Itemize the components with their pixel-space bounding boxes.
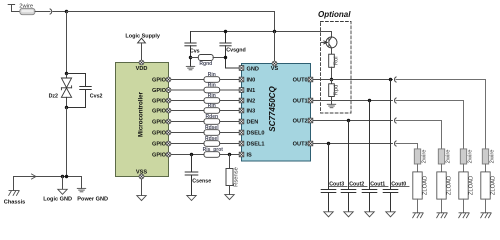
arrow on ground wire: [32, 174, 36, 179]
label 2wire (OUT3): [422, 149, 428, 163]
label Cvsgnd: [226, 48, 245, 54]
wire logic gnd stem: [62, 177, 64, 190]
connector arc OUT3: [394, 141, 396, 146]
svg-text:Microcontroller: Microcontroller: [138, 91, 145, 137]
pin GPIO row7: [152, 141, 171, 147]
TVS diode Dz2: [61, 74, 71, 108]
load ZLOAD (OUT1): [459, 172, 468, 199]
svg-text:ZLOAD: ZLOAD: [491, 176, 497, 195]
resistor 2wire (load OUT0): [482, 149, 488, 164]
junction (Csense tap): [190, 153, 193, 156]
pin OUT3: [293, 141, 313, 147]
wire VS stem: [274, 32, 276, 61]
resistor Rol: [329, 48, 335, 80]
junction (Cout3 tap): [327, 142, 330, 145]
label Optional: [318, 10, 351, 19]
pin DEN: [239, 119, 258, 125]
wire row IN3: [171, 110, 239, 112]
svg-text:GPIO: GPIO: [152, 88, 167, 94]
ground Power GND: [77, 188, 85, 191]
label Power GND: [77, 196, 108, 202]
svg-text:ZLOAD: ZLOAD: [469, 176, 475, 195]
resistor 2wire (supply harness): [20, 8, 35, 14]
ground Logic GND: [58, 189, 67, 194]
wire OUT3: [313, 143, 393, 145]
svg-text:Cvs2: Cvs2: [90, 94, 103, 100]
svg-text:IN1: IN1: [247, 88, 256, 94]
pin VS: [271, 61, 279, 72]
svg-text:GPIO: GPIO: [152, 130, 167, 136]
wire row IN2: [171, 100, 239, 102]
svg-text:GPIO: GPIO: [152, 141, 167, 147]
svg-text:OUT3: OUT3: [293, 142, 308, 148]
pin IN1: [239, 88, 255, 94]
label ZLOAD (OUT1): [469, 176, 475, 195]
wire VS rail: [191, 31, 332, 33]
wire OUT1 to load: [396, 101, 464, 149]
svg-text:Logic Supply: Logic Supply: [125, 34, 160, 40]
wire: [12, 11, 20, 13]
svg-text:DEN: DEN: [247, 120, 259, 126]
pin IN2: [239, 98, 255, 104]
optional dashed box: [321, 22, 352, 114]
wire OUT0: [313, 79, 393, 81]
svg-text:Rden: Rden: [206, 114, 219, 120]
load ZLOAD (OUT0): [481, 172, 490, 199]
resistor Rin (IN1): [204, 83, 220, 93]
label Rsense: [234, 167, 240, 187]
capacitor Cout1: [362, 101, 377, 212]
wire OUT2: [313, 120, 393, 122]
svg-text:VDD: VDD: [136, 66, 148, 72]
svg-text:2wire: 2wire: [446, 149, 452, 163]
resistor Rin (IN3): [204, 103, 220, 113]
label Rgnd: [199, 61, 212, 67]
label Dz2: [49, 94, 58, 100]
wire: [417, 199, 419, 213]
ground below Cout1: [365, 212, 374, 217]
junction (supply node): [65, 10, 68, 13]
label Cout3: [329, 181, 347, 187]
label Logic Supply: [125, 34, 160, 40]
wire transistor top lead: [331, 32, 333, 38]
label 2wire (OUT1): [468, 149, 474, 163]
label 2wire: [19, 4, 33, 10]
label 2wire (OUT2): [446, 149, 452, 163]
svg-text:2wire: 2wire: [19, 4, 33, 10]
junction (Cout1 tap): [368, 99, 371, 102]
ground below Rpd: [327, 104, 335, 107]
svg-text:OUT0: OUT0: [293, 78, 308, 84]
ground below Rsense: [225, 195, 234, 200]
svg-text:IN2: IN2: [247, 99, 256, 105]
svg-text:IN3: IN3: [247, 109, 256, 115]
capacitor Cout0: [383, 80, 398, 212]
svg-text:GPIO: GPIO: [152, 77, 167, 83]
svg-text:IN0: IN0: [247, 78, 256, 84]
svg-text:VS: VS: [271, 66, 279, 72]
capacitor Cout2: [341, 121, 356, 212]
wire: [463, 164, 465, 172]
wire: [463, 199, 465, 213]
label Rol: [334, 56, 340, 65]
label Logic GND: [43, 196, 72, 202]
wire: [417, 164, 419, 172]
svg-text:DSEL0: DSEL0: [247, 131, 265, 137]
chassis ground (OUT2 load): [437, 213, 447, 218]
svg-text:Logic GND: Logic GND: [43, 196, 72, 202]
label 2wire (OUT0): [490, 149, 496, 163]
label Microcontroller: [138, 91, 145, 137]
junction (Cout0 tap): [389, 78, 392, 81]
svg-text:GPIO: GPIO: [152, 98, 167, 104]
wire: [485, 164, 487, 172]
svg-text:2wire: 2wire: [468, 149, 474, 163]
wire: [441, 164, 443, 172]
svg-text:GPIO: GPIO: [152, 152, 167, 158]
connector arc (supply side): [50, 9, 52, 14]
label SC77450CQ: [268, 86, 277, 132]
ground below Cout2: [344, 212, 353, 217]
svg-text:2wire: 2wire: [422, 149, 428, 163]
svg-text:DSEL1: DSEL1: [247, 142, 265, 148]
label Chassis: [4, 200, 25, 206]
wire row IN0: [171, 79, 239, 81]
chassis ground (OUT1 load): [459, 213, 469, 218]
pin VDD: [136, 60, 148, 72]
wire VDD stem: [141, 43, 143, 60]
pin GND: [239, 66, 259, 73]
resistor 2wire (load OUT2): [438, 149, 444, 164]
label ZLOAD (OUT2): [447, 176, 453, 195]
resistor Rdsel (DSEL1): [204, 136, 220, 146]
capacitor Cvs2: [67, 74, 92, 108]
junction (Rol/OUT0): [330, 78, 333, 81]
junction: [65, 72, 68, 75]
svg-text:Rsense: Rsense: [234, 167, 240, 187]
pin GPIO row5: [152, 119, 171, 125]
connector arc OUT0: [394, 77, 396, 82]
ground below VSS: [137, 196, 146, 201]
pin VSS: [136, 170, 147, 179]
svg-text:Rgnd: Rgnd: [199, 61, 212, 67]
label Cvs2: [90, 94, 103, 100]
resistor 2wire (load OUT1): [460, 149, 466, 164]
wire: [441, 199, 443, 213]
svg-text:Cvs: Cvs: [190, 49, 200, 55]
chassis ground (OUT0 load): [481, 213, 491, 218]
pin GPIO row8: [152, 152, 171, 158]
ground below Cvs: [186, 66, 194, 69]
pin OUT0: [293, 77, 313, 83]
chassis ground (left): [9, 191, 19, 196]
svg-text:OUT1: OUT1: [293, 99, 308, 105]
wire OUT2 to load: [396, 121, 442, 149]
capacitor Cout3: [321, 144, 336, 212]
svg-text:Rin: Rin: [208, 93, 216, 99]
svg-text:Rol: Rol: [334, 56, 340, 65]
pin OUT2: [293, 118, 313, 124]
label ZLOAD (OUT3): [423, 176, 429, 195]
label Cvs: [190, 49, 200, 55]
svg-text:Cvsgnd: Cvsgnd: [226, 48, 245, 54]
ground below Cout3: [324, 212, 333, 217]
svg-text:Rin: Rin: [208, 103, 216, 109]
resistor Ris_prot (IS): [203, 147, 224, 157]
junction (VS drop): [273, 30, 276, 33]
wire chassis stem: [13, 177, 15, 191]
junction: [61, 175, 64, 178]
wire supply rail top: [67, 11, 275, 13]
wire row IS: [171, 154, 239, 156]
pin DSEL0: [239, 130, 264, 136]
load ZLOAD (OUT3): [413, 172, 422, 199]
wire left supply vertical: [66, 12, 68, 74]
junction (Cout2 tap): [347, 119, 350, 122]
terminal T (battery supply input): [8, 5, 14, 12]
junction (Rgnd right): [224, 56, 227, 59]
label ZLOAD (OUT0): [491, 176, 497, 195]
ground below Csense: [187, 196, 196, 201]
svg-text:Rpd: Rpd: [334, 85, 340, 96]
label Cout2: [349, 181, 367, 187]
wire OUT0 to load: [396, 80, 486, 149]
svg-text:SC77450CQ: SC77450CQ: [268, 86, 277, 132]
svg-text:ZLOAD: ZLOAD: [423, 176, 429, 195]
supply arrow (Logic Supply): [138, 38, 146, 43]
wire row DSEL0: [171, 132, 239, 134]
svg-text:VSS: VSS: [136, 170, 147, 176]
resistor Rin (IN0): [204, 72, 220, 82]
pin DSEL1: [239, 141, 264, 147]
resistor Rpd: [329, 80, 335, 105]
capacitor Cvs: [185, 32, 196, 67]
load ZLOAD (OUT2): [437, 172, 446, 199]
wire row IN1: [171, 89, 239, 91]
resistor Rdsel (DSEL0): [204, 125, 220, 135]
capacitor Csense: [185, 155, 198, 196]
svg-text:GPIO: GPIO: [152, 108, 167, 114]
svg-text:Dz2: Dz2: [49, 94, 58, 100]
microcontroller U2 block: [116, 63, 169, 177]
svg-text:OUT2: OUT2: [293, 119, 308, 125]
label Cout1: [370, 181, 388, 187]
label Cout0: [391, 181, 409, 187]
svg-text:ZLOAD: ZLOAD: [447, 176, 453, 195]
IC U1 SC77450CQ block: [242, 64, 311, 162]
svg-text:Rdsel: Rdsel: [205, 125, 219, 131]
connector arc OUT1: [394, 98, 396, 103]
transistor Q1 (optional high-side drive): [322, 37, 338, 48]
svg-text:GND: GND: [247, 66, 259, 72]
wire row DEN: [171, 121, 239, 123]
wire supply drop to VS rail: [274, 12, 276, 32]
pin GPIO row2: [152, 88, 171, 94]
chassis ground (OUT3 load): [413, 213, 423, 218]
junction (Cvsgnd rail): [224, 30, 227, 33]
pin OUT1: [293, 98, 313, 104]
wire OUT1: [313, 100, 393, 102]
junction: [65, 175, 68, 178]
resistor Rsense: [226, 155, 233, 195]
resistor Rin (IN2): [204, 93, 220, 103]
svg-text:Optional: Optional: [318, 10, 351, 19]
pin GPIO row3: [152, 98, 171, 104]
wire power gnd stem: [81, 177, 83, 189]
resistor Rden (DEN): [204, 114, 220, 124]
junction (Rgnd left): [189, 56, 192, 59]
label Csense: [192, 178, 211, 184]
capacitor Cvsgnd: [220, 32, 239, 69]
wire: [53, 11, 67, 13]
ground below Cout0: [386, 212, 395, 217]
label Rpd: [334, 85, 340, 96]
svg-text:2wire: 2wire: [490, 149, 496, 163]
wire VSS stem: [141, 179, 143, 196]
svg-text:Power GND: Power GND: [77, 196, 108, 202]
wire: [485, 199, 487, 213]
wire ground rail bottom: [14, 176, 82, 178]
svg-text:Rin: Rin: [208, 72, 216, 78]
connector arc OUT2: [394, 118, 396, 123]
junction (Rsense tap): [228, 153, 231, 156]
pin IN0: [239, 77, 255, 83]
svg-text:Csense: Csense: [192, 178, 211, 184]
pin IN3: [239, 108, 255, 114]
svg-text:IS: IS: [247, 153, 253, 159]
pin GPIO row6: [152, 130, 171, 136]
wire row DSEL1: [171, 143, 239, 145]
pin GPIO row1: [152, 77, 171, 83]
svg-text:Ris_prot: Ris_prot: [203, 147, 224, 153]
svg-text:Rdsel: Rdsel: [205, 136, 219, 142]
resistor Rgnd: [191, 55, 226, 61]
pin IS: [239, 152, 252, 158]
pin GPIO row4: [152, 108, 171, 114]
wire: [35, 11, 50, 13]
wire ground vertical: [66, 108, 68, 177]
svg-text:Chassis: Chassis: [4, 200, 25, 206]
svg-text:Rin: Rin: [208, 83, 216, 89]
wire OUT3 to load: [396, 144, 418, 149]
junction: [65, 106, 68, 109]
resistor 2wire (load OUT3): [414, 149, 420, 164]
svg-text:GPIO: GPIO: [152, 119, 167, 125]
